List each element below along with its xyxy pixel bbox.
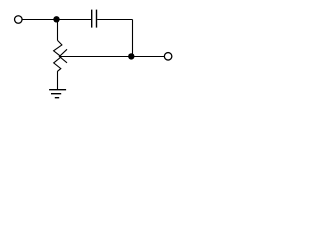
capacitor C1 left plate [91,10,93,28]
junction node A (dot) [53,16,59,22]
potentiometer R1 wiper arrowhead [59,49,67,63]
output terminal (open circle) [164,53,172,61]
capacitor C1 right plate [96,10,98,28]
ground (bottom bar) [55,97,59,99]
wire: node A to capacitor left plate [57,19,91,21]
wire: node B to output terminal [132,56,165,58]
ground (middle bar) [51,93,61,95]
potentiometer R1 (zigzag body) [54,40,62,71]
ground (top bar) [49,89,66,91]
wire: right vertical segment down to node B [132,20,134,57]
wire: potentiometer R1 bottom to ground [57,71,59,90]
wire: input terminal to node A [23,19,56,21]
input terminal (open circle) [15,16,23,24]
wire: wiper to node B [59,56,131,58]
wire: capacitor right plate to top-right corner [97,19,132,21]
junction node B (dot) [128,53,134,59]
wire: node A down to potentiometer R1 [57,20,59,41]
